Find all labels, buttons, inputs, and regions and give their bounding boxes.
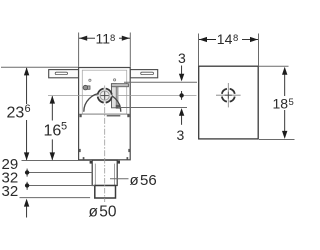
dome arc (trap body) xyxy=(84,93,121,111)
ref line 4 (pipe end) xyxy=(20,197,91,199)
bottom chain arrow up (to pipe end line) xyxy=(24,199,29,207)
dim 14.8 arrow left xyxy=(199,37,207,42)
svg-text:5: 5 xyxy=(61,121,67,133)
centre line through outlet pipe xyxy=(104,158,106,202)
plate crosshair centre cross xyxy=(225,94,232,96)
centre line vertical xyxy=(104,86,106,203)
main housing box xyxy=(79,68,131,160)
svg-text:23: 23 xyxy=(7,104,25,121)
svg-text:16: 16 xyxy=(44,123,62,140)
svg-text:3: 3 xyxy=(178,50,186,66)
chain dot on centre line xyxy=(179,93,183,97)
chain dot on line3 xyxy=(25,183,29,187)
side clip right lower xyxy=(128,149,130,152)
dim 18.5 arrow up xyxy=(282,67,287,75)
elbow horizontal bar xyxy=(111,84,128,87)
chain dot on line2 xyxy=(25,170,29,174)
svg-text:8: 8 xyxy=(233,33,238,44)
valve seat centre cross xyxy=(101,95,109,97)
screw hole left xyxy=(89,79,91,81)
centre line horizontal (runs to right view) xyxy=(48,94,197,96)
inner pipe wall right xyxy=(113,164,115,186)
svg-text:11: 11 xyxy=(96,30,111,46)
ref line 2 (32 level) xyxy=(27,172,92,174)
outlet socket d56 xyxy=(92,160,117,185)
svg-text:56: 56 xyxy=(140,172,157,189)
dim 23.6 line xyxy=(26,68,28,104)
seam clip right xyxy=(127,114,129,117)
svg-text:6: 6 xyxy=(25,103,31,115)
left inlet fitting xyxy=(84,86,90,89)
inner protection lining xyxy=(82,70,126,114)
bottom hook left xyxy=(83,157,85,160)
arrow up to line C xyxy=(179,108,184,116)
dim 11.8 extension line right xyxy=(129,33,131,67)
arrow down to line A xyxy=(181,66,183,76)
dim 18.5 top ext line xyxy=(259,65,289,67)
elbow inner shading xyxy=(116,84,118,107)
dim 18.5 bottom ext line xyxy=(259,139,295,141)
datum extension line (top of unit, 23.6 ref) xyxy=(1,66,79,68)
dim 16.5 line xyxy=(51,96,53,120)
svg-text:32: 32 xyxy=(2,183,19,200)
bottom hook right xyxy=(127,157,129,160)
svg-text:ø: ø xyxy=(89,203,99,220)
dim 23.6 arrow up xyxy=(24,67,29,75)
plate crosshair: cross lines xyxy=(216,94,241,96)
box seam xyxy=(79,113,130,115)
svg-text:3: 3 xyxy=(177,127,185,143)
dim 14.8 ext lines xyxy=(198,34,200,66)
ref line C (elbow bottom level) xyxy=(118,107,187,109)
dim 23.6 arrow down xyxy=(24,152,29,160)
flush bend elbow (vertical pipe) xyxy=(112,84,117,108)
elbow side knob xyxy=(108,92,112,96)
svg-text:18: 18 xyxy=(273,95,289,111)
dome foot line xyxy=(107,115,121,117)
mounting rail right arm xyxy=(130,70,158,78)
flush valve seat circle (gapped ring) xyxy=(98,89,112,103)
outlet pipe d50 xyxy=(95,186,116,199)
dim 16.5 arrow down xyxy=(50,152,55,160)
screw hole right xyxy=(114,79,116,81)
svg-text:ø: ø xyxy=(130,172,139,189)
dim 14.8 dimension line xyxy=(199,39,216,41)
side clip left lower xyxy=(79,149,81,152)
dim 11.8 arrow left xyxy=(79,36,87,41)
dim 11.8 arrow right xyxy=(122,36,130,41)
seam clip left xyxy=(80,114,82,117)
plate crosshair: gapped ring xyxy=(222,89,235,102)
svg-text:50: 50 xyxy=(99,203,117,220)
wall plate rect xyxy=(199,66,259,139)
dim 18.5 arrow down xyxy=(282,131,287,139)
elbow lower block xyxy=(116,105,121,109)
dim 14.8 arrow right xyxy=(250,37,258,42)
valve seat annulus xyxy=(98,89,112,103)
svg-text:8: 8 xyxy=(110,33,115,44)
rail slot left xyxy=(55,72,67,74)
ref line 1 (29 level / box bottom) xyxy=(22,160,93,162)
dim 11.8 extension line left xyxy=(78,33,80,67)
rail slot right xyxy=(141,72,154,74)
svg-text:14: 14 xyxy=(217,31,233,47)
ref line 3 (32 level) xyxy=(27,185,95,187)
leader d56 xyxy=(110,178,129,180)
inner pipe wall left xyxy=(94,164,96,186)
outlet socket clips xyxy=(90,161,92,164)
dim 11.8 dimension line xyxy=(79,37,95,39)
dim 18.5 line xyxy=(284,74,286,96)
svg-text:5: 5 xyxy=(289,97,294,108)
dim 16.5 arrow up xyxy=(50,96,55,104)
mounting rail left arm xyxy=(49,70,79,78)
ref line A (elbow top level) xyxy=(124,81,197,83)
